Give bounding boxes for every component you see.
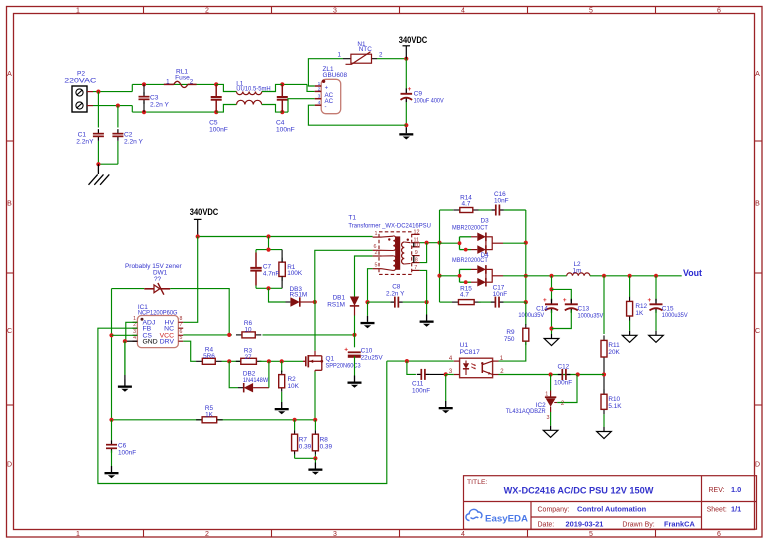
svg-text:5: 5 bbox=[589, 531, 593, 538]
svg-text:750: 750 bbox=[504, 336, 515, 343]
svg-text:8: 8 bbox=[415, 257, 418, 263]
svg-text:R7: R7 bbox=[299, 437, 308, 444]
svg-text:GND: GND bbox=[143, 339, 158, 346]
svg-text:340VDC: 340VDC bbox=[399, 35, 428, 45]
svg-text:A: A bbox=[7, 71, 12, 78]
svg-text:12: 12 bbox=[414, 229, 420, 235]
svg-text:P2: P2 bbox=[77, 71, 85, 78]
svg-text:D: D bbox=[755, 462, 760, 469]
svg-text:U1: U1 bbox=[460, 342, 469, 349]
svg-text:20K: 20K bbox=[608, 349, 620, 356]
svg-text:B: B bbox=[755, 201, 760, 208]
svg-text:22u25V: 22u25V bbox=[361, 354, 384, 361]
svg-text:1K: 1K bbox=[205, 412, 214, 419]
svg-text:B: B bbox=[7, 201, 12, 208]
svg-text:2019-03-21: 2019-03-21 bbox=[566, 519, 604, 528]
svg-text:NTC: NTC bbox=[359, 46, 373, 53]
svg-text:C3: C3 bbox=[150, 95, 159, 102]
svg-text:10nF: 10nF bbox=[493, 291, 508, 298]
svg-text:1: 1 bbox=[166, 79, 170, 86]
svg-text:Drawn By:: Drawn By: bbox=[622, 521, 654, 528]
svg-text:2.2n Y: 2.2n Y bbox=[124, 138, 144, 145]
svg-text:7: 7 bbox=[180, 322, 183, 328]
svg-text:1.0: 1.0 bbox=[731, 485, 741, 494]
svg-text:2: 2 bbox=[190, 78, 194, 85]
svg-text:6: 6 bbox=[717, 8, 721, 15]
svg-text:+: + bbox=[325, 85, 329, 91]
svg-text:??: ?? bbox=[154, 276, 162, 283]
svg-text:Company:: Company: bbox=[538, 506, 570, 513]
svg-text:3: 3 bbox=[318, 94, 321, 100]
svg-text:100uF 400V: 100uF 400V bbox=[414, 98, 445, 105]
svg-text:R12: R12 bbox=[635, 303, 647, 310]
svg-text:7: 7 bbox=[414, 265, 417, 271]
svg-text:10K: 10K bbox=[288, 383, 300, 390]
svg-text:PC817: PC817 bbox=[460, 349, 480, 356]
svg-text:10nF: 10nF bbox=[494, 197, 509, 204]
svg-text:1: 1 bbox=[545, 391, 548, 397]
svg-text:R8: R8 bbox=[320, 437, 329, 444]
svg-text:Date:: Date: bbox=[538, 521, 555, 528]
svg-text:1m: 1m bbox=[573, 267, 582, 274]
svg-text:+: + bbox=[563, 297, 567, 304]
svg-text:C13: C13 bbox=[578, 305, 590, 312]
svg-text:100nF: 100nF bbox=[554, 379, 572, 386]
svg-text:2.2n Y: 2.2n Y bbox=[386, 291, 405, 298]
svg-text:4.7nF: 4.7nF bbox=[263, 270, 279, 277]
svg-text:1: 1 bbox=[318, 81, 321, 87]
svg-text:C4: C4 bbox=[276, 120, 285, 127]
svg-text:1000u35V: 1000u35V bbox=[662, 312, 688, 319]
svg-text:2: 2 bbox=[375, 250, 378, 256]
svg-text:NC: NC bbox=[164, 326, 174, 333]
svg-text:C: C bbox=[755, 328, 760, 335]
svg-text:1: 1 bbox=[375, 231, 378, 237]
svg-text:5.1K: 5.1K bbox=[608, 403, 622, 410]
svg-text:0.39: 0.39 bbox=[299, 444, 312, 451]
svg-text:4.7: 4.7 bbox=[462, 201, 471, 208]
svg-text:D: D bbox=[7, 462, 12, 469]
svg-text:5: 5 bbox=[180, 335, 183, 341]
svg-text:10: 10 bbox=[414, 242, 420, 248]
svg-text:Sheet:: Sheet: bbox=[707, 507, 727, 514]
svg-text:2: 2 bbox=[133, 322, 136, 328]
svg-text:C5: C5 bbox=[209, 120, 218, 127]
svg-text:1000u35V: 1000u35V bbox=[578, 312, 604, 319]
svg-text:100nF: 100nF bbox=[118, 450, 136, 457]
svg-text:+: + bbox=[648, 297, 652, 304]
svg-text:1: 1 bbox=[76, 531, 80, 538]
svg-text:1: 1 bbox=[76, 8, 80, 15]
svg-text:Control Automation: Control Automation bbox=[577, 504, 647, 513]
svg-text:R2: R2 bbox=[288, 376, 297, 383]
svg-text:5: 5 bbox=[375, 263, 378, 269]
svg-text:0.39: 0.39 bbox=[320, 444, 333, 451]
svg-text:C: C bbox=[7, 328, 12, 335]
svg-text:WX-DC2416 AC/DC PSU 12V 150W: WX-DC2416 AC/DC PSU 12V 150W bbox=[504, 486, 654, 496]
svg-text:MBR20200CT: MBR20200CT bbox=[452, 224, 488, 231]
svg-text:C6: C6 bbox=[118, 443, 127, 450]
svg-text:2: 2 bbox=[205, 8, 209, 15]
svg-text:100nF: 100nF bbox=[412, 387, 430, 394]
svg-text:FrankCA: FrankCA bbox=[664, 519, 695, 528]
svg-text:REV:: REV: bbox=[709, 487, 725, 494]
svg-text:Transformer _WX-DC2416PSU: Transformer _WX-DC2416PSU bbox=[348, 222, 431, 229]
svg-text:4: 4 bbox=[461, 531, 465, 538]
svg-text:RS1M: RS1M bbox=[327, 302, 345, 309]
svg-text:4: 4 bbox=[318, 100, 321, 106]
svg-text:FB: FB bbox=[143, 326, 152, 333]
svg-text:TITLE:: TITLE: bbox=[467, 479, 488, 486]
svg-text:R11: R11 bbox=[608, 342, 620, 349]
svg-text:Q1: Q1 bbox=[326, 355, 335, 362]
svg-text:2: 2 bbox=[379, 52, 383, 59]
svg-text:1N4148W: 1N4148W bbox=[243, 377, 269, 384]
svg-text:340VDC: 340VDC bbox=[190, 207, 219, 217]
svg-text:100nF: 100nF bbox=[276, 127, 295, 134]
svg-text:10: 10 bbox=[244, 327, 252, 334]
svg-text:SPP20N60C3: SPP20N60C3 bbox=[326, 362, 361, 369]
svg-text:C12: C12 bbox=[558, 364, 570, 371]
svg-text:GBU608: GBU608 bbox=[323, 72, 348, 79]
svg-text:DB1: DB1 bbox=[333, 295, 346, 302]
svg-text:6: 6 bbox=[717, 531, 721, 538]
svg-text:1000u35V: 1000u35V bbox=[518, 312, 544, 319]
svg-text:+: + bbox=[543, 297, 547, 304]
svg-text:3: 3 bbox=[333, 8, 337, 15]
svg-text:EasyEDA: EasyEDA bbox=[485, 513, 528, 524]
svg-text:A: A bbox=[755, 71, 760, 78]
svg-text:3: 3 bbox=[547, 415, 550, 421]
svg-text:C10: C10 bbox=[361, 347, 373, 354]
svg-text:27: 27 bbox=[244, 354, 252, 361]
svg-text:4.7: 4.7 bbox=[460, 292, 469, 299]
svg-text:C9: C9 bbox=[414, 91, 423, 98]
svg-text:100nF: 100nF bbox=[209, 127, 228, 134]
svg-text:+: + bbox=[408, 86, 412, 93]
svg-text:DRV: DRV bbox=[160, 339, 175, 346]
svg-text:4: 4 bbox=[461, 8, 465, 15]
svg-text:1/1: 1/1 bbox=[731, 505, 741, 514]
svg-text:5: 5 bbox=[589, 8, 593, 15]
svg-text:RS1M: RS1M bbox=[290, 292, 308, 299]
svg-text:2: 2 bbox=[318, 86, 321, 92]
svg-text:R10: R10 bbox=[608, 396, 620, 403]
svg-text:9: 9 bbox=[415, 250, 418, 256]
svg-text:C8: C8 bbox=[392, 284, 401, 291]
svg-text:R9: R9 bbox=[506, 329, 515, 336]
svg-text:2.2nY: 2.2nY bbox=[76, 138, 94, 145]
svg-text:NCP1200P60G: NCP1200P60G bbox=[138, 309, 178, 316]
svg-text:MBR20200CT: MBR20200CT bbox=[452, 257, 488, 264]
svg-text:2: 2 bbox=[205, 531, 209, 538]
svg-text:+: + bbox=[344, 347, 348, 354]
svg-text:1: 1 bbox=[338, 52, 342, 59]
svg-text:100K: 100K bbox=[287, 270, 303, 277]
svg-text:-: - bbox=[325, 105, 327, 111]
svg-text:UU10.5-5mH: UU10.5-5mH bbox=[236, 86, 271, 93]
svg-text:220VAC: 220VAC bbox=[64, 78, 96, 85]
svg-text:2.2n Y: 2.2n Y bbox=[150, 102, 170, 109]
svg-text:5R6: 5R6 bbox=[203, 353, 215, 360]
svg-text:Vout: Vout bbox=[683, 268, 702, 278]
svg-text:Fuse: Fuse bbox=[175, 75, 190, 82]
svg-text:TL431AQDBZR: TL431AQDBZR bbox=[506, 408, 546, 415]
svg-text:T1: T1 bbox=[348, 215, 356, 222]
svg-text:1K: 1K bbox=[635, 310, 644, 317]
svg-text:3: 3 bbox=[333, 531, 337, 538]
